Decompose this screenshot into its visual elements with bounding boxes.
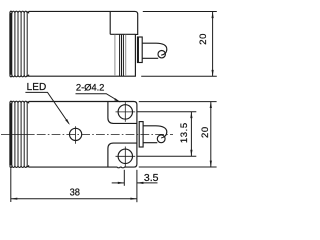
dim 38 arrows (11, 198, 17, 200)
top hole crosshairs (116, 102, 136, 122)
dim 3.5 right arrow (137, 182, 144, 184)
svg-text:13.5: 13.5 (179, 122, 190, 143)
svg-text:2-Ø4.2: 2-Ø4.2 (76, 82, 104, 93)
dim 38 line (11, 198, 137, 200)
top view left edge (9, 13, 11, 74)
top view inner dark lines (120, 35, 124, 76)
svg-text:38: 38 (70, 186, 81, 198)
front view body outline with bottom scallops (29, 102, 137, 168)
bottom extension line left (10, 168, 12, 202)
top view connector block bottom edge (110, 33, 135, 35)
front dim 20 line (210, 102, 212, 167)
svg-text:3.5: 3.5 (144, 172, 159, 184)
front view connector collar (139, 122, 143, 147)
top view inner light lines (115, 35, 126, 76)
front view centerline (1, 133, 33, 135)
top view connector block left edge (109, 12, 111, 35)
front view pin bottom (143, 142, 157, 144)
front view scalloped bottom edge (10, 165, 29, 167)
front view sensing face bar (10, 103, 12, 165)
LED leader arrowhead (65, 119, 70, 125)
top view dim 20 extension lines (141, 12, 217, 77)
top view body outline (29, 11, 138, 76)
top view dim 20 line (212, 12, 214, 76)
front view ribs (15, 103, 27, 165)
dim 13.5 line (190, 112, 192, 156)
svg-text:20: 20 (198, 33, 209, 45)
dim 13.5 arrows (190, 112, 192, 119)
top view pin end circle (158, 51, 165, 58)
front view left edge (9, 103, 11, 165)
dim 3.5 line left segment (112, 182, 125, 184)
mounting hole top (118, 105, 132, 119)
top view dim 20 arrows (212, 12, 214, 19)
front dim 20 extension lines (139, 102, 217, 167)
LED hole vertical crosshair (75, 126, 77, 144)
bottom extension line hole center (123, 170, 125, 186)
top view connector collar (138, 37, 143, 63)
front view pin end circle (157, 135, 165, 143)
front view pin top with hook (143, 126, 167, 138)
top view scalloped bottom edge (10, 75, 29, 77)
bottom extension line flange edge (136, 170, 138, 202)
hole label underline and leader (76, 94, 120, 102)
top view scalloped top edge (10, 11, 29, 13)
dim 3.5 line right segment (137, 182, 158, 184)
dim 3.5 left arrow (118, 182, 125, 184)
LED label underline and leader (25, 92, 69, 123)
top view pin top with hook (142, 43, 167, 55)
dim 13.5 extension lines (138, 112, 197, 157)
svg-text:LED: LED (27, 82, 47, 93)
front view top notch (108, 102, 137, 124)
svg-text:20: 20 (200, 126, 211, 138)
hole leader arrowhead (114, 98, 120, 102)
front view scalloped top edge (10, 101, 29, 103)
front view bottom notch (108, 143, 137, 167)
front dim 20 arrows (210, 102, 212, 109)
mounting hole bottom (118, 149, 132, 163)
LED hole (70, 128, 82, 140)
top view ribs (15, 13, 27, 74)
bottom hole crosshairs (116, 147, 136, 168)
top view sensing face bar (10, 13, 12, 75)
top view pin bottom (142, 57, 158, 59)
